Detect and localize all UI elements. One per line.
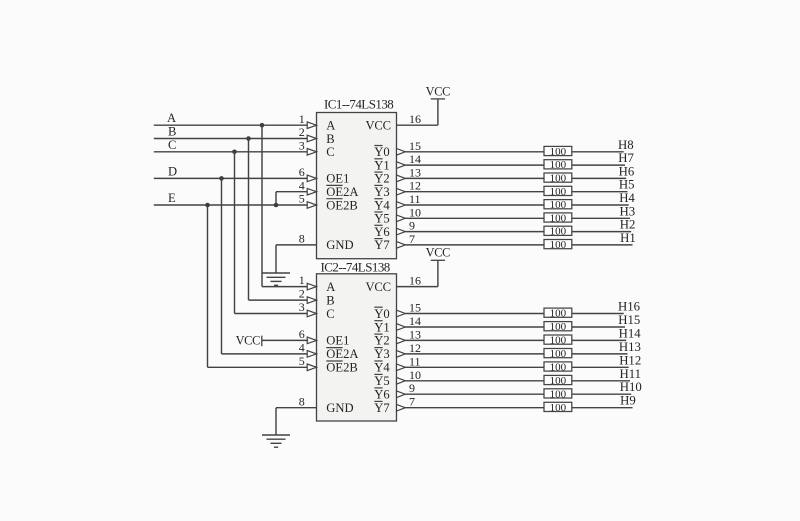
IC U1 pin 10 number	[409, 205, 421, 219]
wire output U1 Y7	[405, 244, 632, 246]
svg-text:100: 100	[550, 321, 567, 333]
IC U2 output Y3 arrow	[397, 351, 406, 358]
svg-text:5: 5	[299, 192, 305, 206]
IC U1 pin 1 arrow	[307, 122, 316, 129]
node D label	[168, 164, 177, 178]
node B label	[168, 125, 176, 139]
IC U1 pin 3 number	[299, 138, 305, 152]
wire output U1 Y1	[405, 164, 625, 166]
svg-text:16: 16	[409, 112, 421, 126]
svg-text:14: 14	[409, 314, 421, 328]
svg-text:H9: H9	[620, 394, 636, 408]
node H6 label	[619, 164, 635, 178]
svg-text:IC1--74LS138: IC1--74LS138	[324, 97, 393, 112]
wire E branch vertical	[275, 192, 277, 205]
svg-text:100: 100	[550, 402, 567, 414]
wire U1 pin 8 to ground	[276, 245, 317, 273]
wire E vertical to IC2	[207, 205, 209, 367]
svg-text:B: B	[326, 132, 334, 146]
IC U2 pin 10 number	[409, 368, 421, 382]
wire output U2 Y3	[405, 353, 627, 355]
IC U1 label Y7	[374, 238, 389, 252]
IC U2 label C	[326, 307, 334, 321]
IC U2 pin 11 number	[409, 354, 421, 368]
svg-text:8: 8	[299, 394, 305, 408]
svg-text:Y4: Y4	[374, 198, 390, 212]
svg-text:OE2A: OE2A	[326, 347, 358, 361]
svg-text:H15: H15	[618, 313, 640, 327]
IC U2 pin 4 arrow	[307, 351, 316, 358]
IC U1 output Y0 arrow	[397, 149, 406, 156]
svg-text:100: 100	[550, 335, 567, 347]
IC U1 74LS138 body	[317, 113, 397, 259]
svg-text:Y6: Y6	[374, 388, 389, 402]
svg-text:100: 100	[550, 308, 567, 320]
wire output U1 Y0	[405, 151, 623, 153]
svg-text:B: B	[326, 293, 334, 307]
IC U2 output Y5 arrow	[397, 377, 406, 384]
resistor R12 100	[544, 348, 572, 360]
svg-text:2: 2	[299, 125, 305, 139]
node A label	[167, 111, 176, 125]
svg-text:Y3: Y3	[374, 185, 389, 199]
node H4 label	[619, 191, 635, 205]
svg-text:Y4: Y4	[374, 361, 390, 375]
svg-text:Y2: Y2	[374, 334, 389, 348]
svg-text:12: 12	[409, 341, 421, 355]
wire output U1 Y3	[405, 191, 627, 193]
svg-text:14: 14	[409, 152, 421, 166]
svg-text:VCC: VCC	[366, 119, 391, 133]
wire U2 pin 8 to ground	[276, 408, 317, 435]
svg-text:Y0: Y0	[374, 145, 389, 159]
IC U1 output Y2 arrow	[397, 175, 406, 182]
IC U1 label Y4	[374, 198, 390, 212]
IC U1 label VCC	[366, 119, 391, 133]
IC U2 label OE2B	[326, 361, 357, 375]
IC U2 output Y7 arrow	[397, 404, 406, 411]
IC U1 pin 6 number	[299, 165, 305, 179]
resistor R8 100	[544, 239, 572, 251]
node H1 label	[620, 231, 636, 245]
resistor R11 100	[544, 335, 572, 347]
svg-text:3: 3	[299, 300, 305, 314]
junction D	[219, 176, 224, 181]
svg-text:GND: GND	[326, 238, 353, 252]
IC U2 label A	[326, 280, 335, 294]
svg-text:10: 10	[409, 205, 421, 219]
svg-text:100: 100	[550, 173, 567, 185]
svg-text:2: 2	[299, 287, 305, 301]
wire output U2 Y1	[405, 326, 625, 328]
IC U2 pin 2 number	[299, 287, 305, 301]
svg-text:VCC: VCC	[366, 280, 391, 294]
svg-text:15: 15	[409, 301, 421, 315]
IC U1 label Y3	[374, 185, 389, 199]
svg-text:H4: H4	[619, 191, 635, 205]
node H11 label	[620, 367, 642, 381]
svg-text:3: 3	[299, 138, 305, 152]
IC U2 label B	[326, 293, 334, 307]
IC U2 output Y6 arrow	[397, 391, 406, 398]
IC U2 label Y0	[374, 307, 389, 321]
IC U2 pin 16 wire	[397, 260, 438, 286]
svg-text:9: 9	[409, 381, 415, 395]
IC U1 label OE2B	[326, 198, 357, 212]
svg-text:H3: H3	[620, 204, 636, 218]
svg-text:H8: H8	[618, 138, 634, 152]
svg-text:Y2: Y2	[374, 172, 389, 186]
IC U1 pin 16 wire	[397, 99, 438, 125]
svg-text:100: 100	[550, 388, 567, 400]
node H7 label	[618, 151, 634, 165]
svg-text:OE2B: OE2B	[326, 198, 357, 212]
node H10 label	[620, 380, 642, 394]
wire output U1 Y5	[405, 217, 630, 219]
junction B	[246, 136, 251, 141]
svg-text:1: 1	[299, 112, 305, 126]
svg-text:7: 7	[409, 395, 415, 409]
svg-text:100: 100	[550, 226, 567, 238]
IC U1 label C	[326, 145, 334, 159]
svg-text:C: C	[326, 307, 334, 321]
svg-text:100: 100	[550, 159, 567, 171]
IC U1 pin 13 number	[409, 165, 421, 179]
svg-text:IC2--74LS138: IC2--74LS138	[321, 260, 390, 275]
node H3 label	[620, 204, 636, 218]
wire A elbow to IC2 pin	[262, 286, 308, 288]
node H13 label	[619, 340, 641, 354]
svg-text:100: 100	[550, 239, 567, 251]
wire output U2 Y5	[405, 380, 630, 382]
svg-text:A: A	[326, 119, 335, 133]
IC U2 pin 5 arrow	[307, 364, 316, 371]
wire A vertical to IC2	[261, 125, 263, 286]
IC U1 pin 5 arrow	[307, 202, 316, 209]
IC U2 title	[321, 260, 390, 275]
IC U1 pin 16 number	[409, 112, 421, 126]
svg-text:4: 4	[299, 341, 305, 355]
IC U1 label Y1	[374, 158, 389, 172]
IC U2 label Y6	[374, 388, 389, 402]
IC U1 label Y0	[374, 145, 389, 159]
wire output U2 Y7	[405, 407, 632, 409]
IC U1 output Y3 arrow	[397, 188, 406, 195]
svg-text:H13: H13	[619, 340, 641, 354]
VCC source for U2 OE1	[236, 334, 262, 348]
svg-text:4: 4	[299, 178, 305, 192]
resistor R15 100	[544, 388, 572, 400]
wire E branch to pin 4	[276, 191, 308, 193]
svg-text:100: 100	[550, 348, 567, 360]
IC U2 label Y2	[374, 334, 389, 348]
svg-text:6: 6	[299, 327, 305, 341]
svg-text:11: 11	[409, 354, 421, 368]
resistor R13 100	[544, 361, 572, 373]
IC U2 pin 14 number	[409, 314, 421, 328]
junction E	[205, 203, 210, 208]
IC U2 pin 6 number	[299, 327, 305, 341]
wire input A horizontal	[154, 124, 308, 126]
junction A	[260, 123, 265, 128]
resistor R2 100	[544, 159, 572, 171]
junction E branch	[274, 203, 279, 208]
IC U1 label Y6	[374, 225, 389, 239]
svg-text:D: D	[168, 164, 177, 178]
IC U2 label GND	[326, 401, 353, 415]
IC U1 output Y4 arrow	[397, 202, 406, 209]
wire B elbow to IC2 pin	[249, 299, 309, 301]
svg-text:5: 5	[299, 354, 305, 368]
junction C	[232, 150, 237, 155]
node H14 label	[619, 326, 642, 340]
svg-text:OE2B: OE2B	[326, 361, 357, 375]
svg-text:C: C	[326, 145, 334, 159]
node H16 label	[618, 300, 641, 314]
IC U1 pin 7 number	[409, 232, 415, 246]
IC U1 pin 8 number	[299, 232, 305, 246]
IC U2 pin 3 arrow	[307, 310, 316, 317]
IC U2 label Y7	[374, 401, 389, 415]
IC U2 pin 8 number	[299, 394, 305, 408]
wire E elbow to IC2 pin	[208, 366, 309, 368]
IC U2 pin 12 number	[409, 341, 421, 355]
IC U1 label A	[326, 119, 335, 133]
IC U2 label VCC	[366, 280, 391, 294]
svg-text:C: C	[168, 138, 176, 152]
wire input D horizontal	[154, 177, 308, 179]
node H8 label	[618, 138, 634, 152]
svg-text:9: 9	[409, 219, 415, 233]
IC U2 pin 9 number	[409, 381, 415, 395]
svg-text:Y6: Y6	[374, 225, 389, 239]
svg-text:8: 8	[299, 232, 305, 246]
svg-text:Y5: Y5	[374, 374, 389, 388]
resistor R7 100	[544, 226, 572, 238]
IC U1 pin 15 number	[409, 139, 421, 153]
svg-text:16: 16	[409, 274, 421, 288]
IC U1 label Y2	[374, 172, 389, 186]
IC U2 pin 2 arrow	[307, 297, 316, 304]
svg-text:VCC: VCC	[426, 246, 451, 260]
svg-text:H14: H14	[619, 326, 642, 340]
node E label	[168, 191, 176, 205]
svg-text:Y3: Y3	[374, 347, 389, 361]
IC U1 pin 11 number	[409, 192, 421, 206]
svg-text:GND: GND	[326, 401, 353, 415]
node H5 label	[619, 178, 635, 192]
svg-text:VCC: VCC	[426, 84, 451, 98]
wire input E horizontal	[154, 204, 308, 206]
resistor R16 100	[544, 402, 572, 414]
IC U1 pin 4 arrow	[307, 188, 316, 195]
svg-text:B: B	[168, 125, 176, 139]
svg-text:E: E	[168, 191, 176, 205]
node H2 label	[620, 218, 636, 232]
wire VCC to U2 pin 6	[262, 339, 308, 341]
IC U2 pin 13 number	[409, 327, 421, 341]
IC U2 label Y3	[374, 347, 389, 361]
IC U2 output Y2 arrow	[397, 337, 406, 344]
svg-text:H11: H11	[620, 367, 642, 381]
resistor R14 100	[544, 375, 572, 387]
svg-text:A: A	[167, 111, 176, 125]
svg-text:OE2A: OE2A	[326, 185, 358, 199]
svg-text:VCC: VCC	[236, 334, 261, 348]
wire B vertical to IC2	[248, 139, 250, 301]
IC U2 label Y1	[374, 320, 389, 334]
IC U1 pin 12 number	[409, 179, 421, 193]
svg-text:100: 100	[550, 375, 567, 387]
svg-text:15: 15	[409, 139, 421, 153]
wire output U2 Y0	[405, 313, 623, 315]
svg-text:13: 13	[409, 165, 421, 179]
IC U2 output Y1 arrow	[397, 324, 406, 331]
svg-text:6: 6	[299, 165, 305, 179]
svg-text:100: 100	[550, 146, 567, 158]
IC U1 pin 6 arrow	[307, 175, 316, 182]
IC U1 output Y6 arrow	[397, 228, 406, 235]
IC U2 label Y4	[374, 361, 390, 375]
IC U1 label GND	[326, 238, 353, 252]
IC U2 pin 15 number	[409, 301, 421, 315]
svg-text:100: 100	[550, 212, 567, 224]
IC U2 pin 1 number	[299, 273, 305, 287]
svg-text:H16: H16	[618, 300, 641, 314]
IC U2 pin 6 arrow	[307, 337, 316, 344]
svg-text:1: 1	[299, 273, 305, 287]
svg-text:100: 100	[550, 186, 567, 198]
IC U1 pin 1 number	[299, 112, 305, 126]
IC U2 output Y4 arrow	[397, 364, 406, 371]
svg-text:Y5: Y5	[374, 212, 389, 226]
svg-text:10: 10	[409, 368, 421, 382]
resistor R10 100	[544, 321, 572, 333]
svg-text:OE1: OE1	[326, 334, 349, 348]
svg-text:Y7: Y7	[374, 238, 389, 252]
IC U1 pin 14 number	[409, 152, 421, 166]
wire D elbow to IC2 pin	[222, 353, 309, 355]
svg-text:H1: H1	[620, 231, 636, 245]
IC U1 pin 5 number	[299, 192, 305, 206]
ground symbol U1	[262, 273, 290, 285]
resistor R1 100	[544, 146, 572, 158]
svg-text:100: 100	[550, 199, 567, 211]
wire input C horizontal	[154, 151, 308, 153]
svg-text:Y1: Y1	[374, 320, 389, 334]
svg-text:H6: H6	[619, 164, 635, 178]
svg-text:H2: H2	[620, 218, 636, 232]
IC U2 pin 7 number	[409, 395, 415, 409]
wire output U1 Y6	[405, 231, 631, 233]
svg-text:Y7: Y7	[374, 401, 389, 415]
svg-text:OE1: OE1	[326, 172, 349, 186]
wire output U2 Y6	[405, 393, 631, 395]
IC U1 pin 4 number	[299, 178, 305, 192]
IC U2 pin 16 number	[409, 274, 421, 288]
wire output U2 Y2	[405, 339, 626, 341]
IC U2 label OE1	[326, 334, 349, 348]
resistor R9 100	[544, 308, 572, 320]
wire output U2 Y4	[405, 366, 628, 368]
resistor R4 100	[544, 186, 572, 198]
IC U1 label OE1	[326, 172, 349, 186]
IC U1 title	[324, 97, 393, 112]
svg-text:H7: H7	[618, 151, 634, 165]
IC U2 74LS138 body	[317, 274, 397, 421]
IC U1 pin 3 arrow	[307, 149, 316, 156]
IC U1 label OE2A	[326, 185, 358, 199]
node C label	[168, 138, 176, 152]
resistor R5 100	[544, 199, 572, 211]
IC U2 output Y0 arrow	[397, 310, 406, 317]
IC U1 label Y5	[374, 212, 389, 226]
wire C vertical to IC2	[234, 152, 236, 314]
IC U1 pin 2 arrow	[307, 135, 316, 142]
IC U1 output Y7 arrow	[397, 242, 406, 249]
svg-text:Y0: Y0	[374, 307, 389, 321]
IC U1 output Y5 arrow	[397, 215, 406, 222]
ground symbol U2	[262, 435, 290, 447]
wire C elbow to IC2 pin	[235, 313, 309, 315]
svg-text:12: 12	[409, 179, 421, 193]
IC U2 pin 5 number	[299, 354, 305, 368]
IC U2 label OE2A	[326, 347, 358, 361]
wire D vertical to IC2	[221, 178, 223, 354]
svg-text:H10: H10	[620, 380, 642, 394]
node H12 label	[619, 353, 641, 367]
VCC symbol U2	[426, 246, 451, 261]
svg-text:11: 11	[409, 192, 421, 206]
svg-text:7: 7	[409, 232, 415, 246]
svg-text:13: 13	[409, 327, 421, 341]
IC U1 pin 2 number	[299, 125, 305, 139]
IC U1 pin 9 number	[409, 219, 415, 233]
resistor R6 100	[544, 212, 572, 224]
IC U1 output Y1 arrow	[397, 162, 406, 169]
node H15 label	[618, 313, 640, 327]
IC U2 pin 4 number	[299, 341, 305, 355]
node H9 label	[620, 394, 636, 408]
wire output U1 Y2	[405, 177, 626, 179]
IC U2 pin 1 arrow	[307, 283, 316, 290]
wire output U1 Y4	[405, 204, 628, 206]
svg-text:100: 100	[550, 361, 567, 373]
wire input B horizontal	[154, 138, 308, 140]
svg-text:Y1: Y1	[374, 158, 389, 172]
resistor R3 100	[544, 173, 572, 185]
svg-text:H12: H12	[619, 353, 641, 367]
IC U2 label Y5	[374, 374, 389, 388]
IC U2 pin 3 number	[299, 300, 305, 314]
svg-text:H5: H5	[619, 178, 635, 192]
svg-text:A: A	[326, 280, 335, 294]
IC U1 label B	[326, 132, 334, 146]
VCC symbol U1	[426, 84, 451, 99]
